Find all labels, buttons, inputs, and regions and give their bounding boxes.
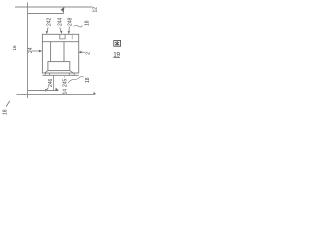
wire leader caret from 244 to notch: [60, 28, 61, 32]
wire leader from 242 with arrow to lid: [46, 28, 49, 32]
wire leader from 24 with right arrow: [32, 50, 40, 52]
svg-text:248: 248: [68, 17, 74, 26]
wire right flare from pedestal to base: [70, 71, 74, 73]
wire drop line from package bottom: [53, 75, 55, 90]
component left foot tab below base: [45, 73, 49, 75]
wire diagonal tick leader for 18': [6, 101, 10, 107]
wire board line under package: [42, 74, 78, 76]
wire bottom horizontal line BH1: [28, 90, 59, 92]
wire top horizontal line H1: [15, 6, 93, 8]
wire vertical stub at H1/H2 junction: [63, 7, 65, 14]
wire left flare from pedestal to base: [45, 71, 48, 73]
svg-text:245: 245: [63, 78, 69, 87]
wire leader from 245 up arrow: [63, 77, 65, 78]
wire long left vertical line VL1: [27, 3, 29, 99]
svg-text:18: 18: [85, 20, 91, 26]
component right foot tab below base: [69, 73, 74, 75]
component lid notch: [60, 34, 65, 39]
svg-text:24: 24: [28, 47, 34, 53]
svg-text:2: 2: [86, 52, 92, 55]
svg-text:18: 18: [3, 109, 9, 115]
svg-text:14: 14: [63, 89, 69, 95]
svg-text:246: 246: [48, 78, 54, 87]
wire second horizontal line H2: [28, 13, 64, 15]
svg-text:18: 18: [85, 77, 91, 83]
node arrowhead at junction: [61, 7, 65, 12]
wire squiggle leader to label 18 (bottom right): [68, 77, 84, 83]
svg-text:244: 244: [58, 17, 64, 26]
node figure caption kanji Zu (figure): [114, 41, 121, 47]
component package outer box: [42, 34, 78, 73]
component left support vertical in cavity: [50, 42, 52, 62]
node caption underline: [113, 57, 120, 59]
component lid inner (ceiling) line: [42, 41, 78, 43]
wire squiggle leader to label 18 (top right): [74, 25, 83, 27]
svg-text:12: 12: [93, 7, 99, 13]
wire bottom horizontal line BH2: [17, 93, 95, 95]
node arrow tick at right end of BH2: [93, 92, 96, 95]
component pedestal box: [48, 62, 70, 71]
wire leader from 248 down to lid: [68, 27, 70, 32]
wire leader from 2 with left arrow: [81, 51, 85, 53]
svg-text:16: 16: [12, 45, 17, 51]
component right support vertical in cavity: [63, 42, 65, 62]
component lid right joint line: [71, 34, 73, 39]
wire leader from 246 diagonal with arrow to line: [47, 88, 49, 91]
svg-text:242: 242: [47, 17, 53, 26]
node arrow at end of BH1: [56, 88, 59, 91]
